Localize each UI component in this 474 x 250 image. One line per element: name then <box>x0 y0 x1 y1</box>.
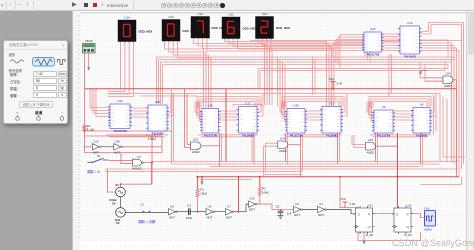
display U14 <box>118 20 136 43</box>
wire nets (pale) <box>90 23 465 185</box>
ground arrow <box>362 241 365 245</box>
svg-text:S2: S2 <box>97 154 101 158</box>
svg-text:74LS90D: 74LS90D <box>326 133 338 137</box>
svg-text:74LS173N: 74LS173N <box>113 129 126 133</box>
svg-text:NOT: NOT <box>114 150 120 154</box>
IC U16 74LS173N <box>200 109 221 134</box>
IC U4 74LS90D <box>411 108 432 134</box>
svg-text:S1: S1 <box>141 203 145 207</box>
svg-text:U18: U18 <box>155 100 161 104</box>
svg-text:U17: U17 <box>245 102 251 106</box>
svg-text:DCD_HEX: DCD_HEX <box>243 27 257 31</box>
svg-text:U13: U13 <box>329 102 335 106</box>
svg-text:74LS90D: 74LS90D <box>152 131 164 135</box>
svg-text:1uF: 1uF <box>287 212 292 216</box>
svg-text:10uF: 10uF <box>186 216 193 220</box>
NOT gate U7 <box>226 209 235 215</box>
svg-text:U10: U10 <box>262 12 268 16</box>
wire junctions <box>238 176 240 178</box>
svg-text:NOT: NOT <box>226 215 232 219</box>
source V2 <box>116 208 126 218</box>
flip-flop U16 <box>392 206 413 234</box>
svg-text:Q: Q <box>368 212 370 216</box>
svg-text:AND2: AND2 <box>279 149 287 153</box>
VCC <box>343 202 348 208</box>
svg-text:AND2: AND2 <box>192 150 200 154</box>
svg-text:DCD_HEX: DCD_HEX <box>139 30 153 34</box>
svg-text:U11: U11 <box>228 12 234 16</box>
IC U15 74LS173N <box>285 109 307 134</box>
svg-text:VCC: VCC <box>340 197 346 201</box>
IC U19 74LS90D <box>398 26 422 54</box>
AND gate U24 <box>278 141 288 148</box>
svg-text:U19: U19 <box>407 21 413 25</box>
svg-text:NOT: NOT <box>294 213 300 217</box>
IC U13 74LS90D <box>320 107 343 134</box>
svg-text:NOT: NOT <box>169 215 175 219</box>
IC U5 74LS173N <box>372 110 395 133</box>
NAND gate U2 <box>133 159 144 166</box>
NOT gate U6 <box>294 206 303 212</box>
svg-text:U3: U3 <box>319 202 323 206</box>
svg-text:C1: C1 <box>187 203 191 207</box>
svg-text:VCC: VCC <box>329 77 335 81</box>
svg-text:NOT: NOT <box>318 213 324 217</box>
svg-text:74LS90D: 74LS90D <box>416 133 428 137</box>
svg-text:U22: U22 <box>117 99 123 103</box>
flip-flop U17 <box>354 206 375 234</box>
svg-text:调制 = A: 调制 = A <box>87 169 101 174</box>
svg-text:U24: U24 <box>280 137 286 141</box>
svg-text:U17: U17 <box>368 204 374 208</box>
VCC <box>331 82 336 89</box>
switch S2 <box>88 158 110 163</box>
svg-text:U26: U26 <box>445 72 451 76</box>
ground arrow <box>200 181 203 185</box>
wire nets (strong) <box>85 89 459 212</box>
IC U18 74LS90D <box>146 105 169 131</box>
svg-text:10kΩ: 10kΩ <box>200 192 208 196</box>
svg-text:U16: U16 <box>208 104 214 108</box>
svg-text:U23: U23 <box>368 138 374 142</box>
svg-text:V1: V1 <box>115 183 119 187</box>
dialog titlebar <box>4 41 67 50</box>
svg-text:DCD_HEX: DCD_HEX <box>183 29 197 33</box>
svg-text:~Q: ~Q <box>367 225 371 229</box>
AND gate U26 <box>443 76 453 84</box>
AND gate U21 <box>191 142 202 150</box>
svg-text:U4: U4 <box>420 103 424 107</box>
svg-text:DCD_HEX: DCD_HEX <box>276 26 290 30</box>
NOT gate U10 <box>249 201 258 207</box>
NOT gate U3 <box>318 206 327 212</box>
svg-text:DCD_HEX: DCD_HEX <box>212 26 226 30</box>
svg-text:5.1kΩ: 5.1kΩ <box>87 128 95 132</box>
svg-text:AND2: AND2 <box>367 150 375 154</box>
svg-text:AND2: AND2 <box>444 84 452 88</box>
canvas top shading <box>80 12 474 14</box>
NOT gate U30 <box>114 144 123 150</box>
svg-text:XFG3: XFG3 <box>85 39 93 43</box>
svg-text:74LS173N: 74LS173N <box>377 133 390 137</box>
svg-text:74LS173N: 74LS173N <box>289 133 302 137</box>
svg-text:U2: U2 <box>137 155 141 159</box>
svg-text:U12: U12 <box>197 12 203 16</box>
NOT gate U9 <box>206 209 215 215</box>
svg-text:U5: U5 <box>382 105 386 109</box>
IC U20 74LS173N <box>362 32 384 52</box>
left ruler ticks <box>76 16 80 237</box>
svg-text:74LS173N: 74LS173N <box>366 52 379 56</box>
svg-text:Q: Q <box>407 212 409 216</box>
svg-text:1.6V: 1.6V <box>424 206 430 210</box>
svg-text:74LS90D: 74LS90D <box>404 54 416 58</box>
clock source V3 <box>425 211 436 227</box>
scrollbar <box>466 11 474 250</box>
svg-text:U29: U29 <box>93 139 99 143</box>
svg-text:NOT: NOT <box>249 208 255 212</box>
ground arrow <box>421 70 427 72</box>
svg-text:5.0V: 5.0V <box>337 81 343 85</box>
display U13 <box>162 20 180 43</box>
svg-text:10kΩ: 10kΩ <box>262 190 270 194</box>
svg-text:74LS90D: 74LS90D <box>242 133 254 137</box>
svg-text:D_FF: D_FF <box>404 233 411 237</box>
svg-text:U6: U6 <box>295 202 299 206</box>
ground arrow <box>88 63 90 67</box>
NOT gate U29 <box>92 144 101 150</box>
svg-text:1.5kΩ: 1.5kΩ <box>148 137 156 141</box>
NOT gate U8 <box>169 209 178 215</box>
svg-text:U15: U15 <box>293 104 299 108</box>
source V1 <box>116 187 126 197</box>
watermark <box>392 238 474 248</box>
capacitor C1 <box>176 208 206 215</box>
IC U22 74LS173N <box>108 104 132 129</box>
svg-text:U7: U7 <box>227 204 231 208</box>
display U10 <box>256 17 274 41</box>
waveform section <box>9 52 16 57</box>
IC U17 74LS90D <box>237 107 260 134</box>
svg-text:U20: U20 <box>370 27 376 31</box>
logic interconnect (dark) <box>101 147 355 214</box>
svg-text:U30: U30 <box>115 139 121 143</box>
svg-text:5.0V: 5.0V <box>350 202 356 206</box>
left design panel <box>0 11 72 250</box>
direction arrows <box>143 211 152 213</box>
svg-text:NOT: NOT <box>206 215 212 219</box>
display U12 <box>191 17 210 40</box>
bottom ruler <box>82 244 461 248</box>
svg-text:U10: U10 <box>249 197 255 201</box>
svg-text:U13: U13 <box>168 15 174 19</box>
svg-text:NAND2: NAND2 <box>132 167 142 171</box>
svg-text:D: D <box>358 212 360 216</box>
capacitor C2 <box>278 210 284 219</box>
svg-text:5V: 5V <box>116 221 120 225</box>
AND gate U23 <box>366 143 376 151</box>
svg-text:U16: U16 <box>406 204 412 208</box>
svg-text:D_FF: D_FF <box>366 233 373 237</box>
svg-text:调制 = 引脚: 调制 = 引脚 <box>138 219 156 224</box>
canvas background grid <box>80 12 466 241</box>
svg-text:100Hz: 100Hz <box>424 228 433 232</box>
instrument XFG3 icon <box>83 44 96 54</box>
display U11 <box>222 17 240 40</box>
wire nets (mid) <box>83 53 456 241</box>
svg-text:74LS173N: 74LS173N <box>204 133 217 137</box>
svg-text:D: D <box>396 212 398 216</box>
svg-text:C2: C2 <box>276 204 280 208</box>
svg-text:~Q: ~Q <box>406 225 410 229</box>
svg-text:U8: U8 <box>170 204 174 208</box>
svg-text:U9: U9 <box>208 204 212 208</box>
svg-text:5V: 5V <box>112 202 116 206</box>
svg-text:U21: U21 <box>193 138 199 142</box>
svg-text:U14: U14 <box>124 15 130 19</box>
